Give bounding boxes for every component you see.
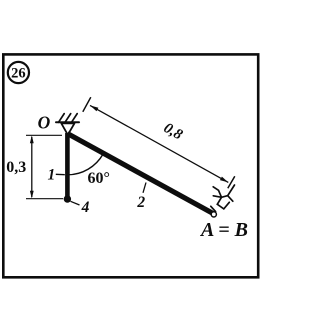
leader line for 2 xyxy=(143,183,146,193)
dimension 0,3 top arrow xyxy=(30,135,34,143)
svg-text:0,3: 0,3 xyxy=(6,159,26,176)
dimension 0,3 bottom arrow xyxy=(30,191,34,199)
dimension 0,8 start tick xyxy=(83,97,91,112)
svg-text:60°: 60° xyxy=(88,170,110,187)
problem number circle 26 xyxy=(8,62,29,83)
svg-text:4: 4 xyxy=(81,199,90,216)
joint dot node 4 xyxy=(64,195,71,202)
svg-text:O: O xyxy=(38,113,51,133)
bar 1 (vertical rod) xyxy=(65,133,70,199)
support hatching at O xyxy=(56,114,79,123)
leader line for 1 xyxy=(56,173,65,175)
dimension 0,8 start arrow xyxy=(90,105,98,111)
leader line for 4 xyxy=(71,201,80,205)
dimension 0,8 end tick xyxy=(228,176,235,188)
bar 2 (inclined rod) xyxy=(67,134,214,215)
dimension 0,8 line xyxy=(90,105,228,182)
pin circle at A xyxy=(211,212,216,217)
frame border xyxy=(3,54,258,277)
extension line top xyxy=(26,134,62,136)
dimension 0,3 vertical line xyxy=(31,137,33,197)
60 degree arc xyxy=(67,154,103,175)
dimension 0,8 end arrow xyxy=(220,177,228,183)
wall support hatching at A xyxy=(211,185,235,212)
svg-text:2: 2 xyxy=(136,194,145,211)
svg-text:26: 26 xyxy=(11,66,26,82)
extension line bottom xyxy=(26,198,63,200)
svg-text:1: 1 xyxy=(48,167,56,184)
pin support triangle at O xyxy=(61,123,74,135)
svg-text:A = B: A = B xyxy=(199,219,248,241)
